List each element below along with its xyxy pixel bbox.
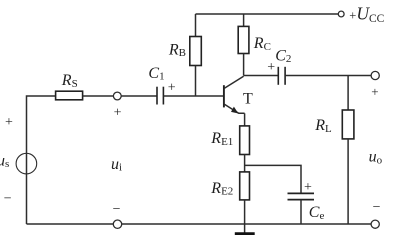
svg-text:uo: uo bbox=[369, 149, 383, 167]
wire: RS to input terminal bbox=[83, 95, 114, 97]
wire: RE1-RE2 junction to Ce branch bbox=[245, 165, 301, 193]
wire: emitter down to RE1 bbox=[244, 113, 246, 126]
wire: RE1 to RE2 bbox=[244, 155, 246, 172]
wire: RE2 to bottom rail bbox=[244, 200, 246, 224]
svg-text:ui: ui bbox=[111, 156, 122, 174]
node: output terminal top (open circle) bbox=[371, 71, 379, 79]
capacitor Ce bbox=[288, 193, 315, 199]
svg-text:RS: RS bbox=[61, 72, 78, 90]
wire: C1 to base (through RB junction) bbox=[163, 95, 223, 97]
svg-text:T: T bbox=[243, 90, 253, 107]
svg-text:RL: RL bbox=[314, 117, 332, 135]
node: input terminal bottom (open circle) bbox=[113, 220, 121, 228]
svg-text:+: + bbox=[5, 115, 13, 130]
svg-text:C2: C2 bbox=[275, 47, 291, 65]
svg-text:−: − bbox=[373, 200, 381, 215]
wire: bottom rail left segment bbox=[27, 223, 114, 225]
svg-text:+: + bbox=[371, 84, 378, 99]
wire: top supply rail bbox=[196, 13, 339, 15]
resistor RE2 bbox=[240, 172, 250, 200]
svg-text:RE2: RE2 bbox=[210, 180, 233, 198]
svg-text:+: + bbox=[267, 60, 275, 75]
resistor RE1 bbox=[240, 126, 250, 155]
resistor RS bbox=[56, 91, 83, 100]
wire: C2 to output terminal (through RL junction) bbox=[285, 75, 371, 77]
wire: RB box to base wire junction bbox=[195, 66, 197, 97]
svg-text:C1: C1 bbox=[148, 65, 164, 83]
transistor T: emitter diagonal bbox=[224, 104, 244, 113]
node: input terminal top (open circle) bbox=[113, 92, 121, 100]
transistor T: emitter arrowhead bbox=[231, 107, 238, 114]
resistor RC bbox=[238, 26, 249, 53]
svg-text:Ce: Ce bbox=[309, 204, 325, 222]
wire: bottom rail right segment bbox=[122, 223, 371, 225]
svg-text:−: − bbox=[4, 192, 12, 207]
svg-text:us: us bbox=[0, 152, 9, 170]
wire: RC box to collector junction bbox=[243, 54, 245, 76]
voltage source us (circle symbol) bbox=[16, 153, 37, 174]
svg-text:RE1: RE1 bbox=[210, 130, 233, 148]
resistor RB bbox=[190, 37, 202, 66]
wire: input terminal to C1 bbox=[121, 95, 157, 97]
resistor RL bbox=[342, 110, 354, 139]
capacitor C1 bbox=[157, 87, 163, 105]
wire: RB branch vertical (top rail to box) bbox=[195, 14, 197, 37]
svg-text:RB: RB bbox=[168, 41, 186, 59]
wire: collector to C2 bbox=[244, 75, 279, 77]
svg-text:RC: RC bbox=[253, 35, 271, 53]
wire: RL branch vertical bbox=[347, 76, 349, 111]
svg-text:−: − bbox=[113, 202, 121, 217]
svg-text:+: + bbox=[168, 81, 176, 96]
wire: RL to bottom rail bbox=[347, 139, 349, 224]
ground bbox=[235, 224, 255, 234]
svg-text:+: + bbox=[114, 105, 122, 120]
transistor T: collector diagonal bbox=[224, 76, 243, 88]
node: output terminal bottom (open circle) bbox=[371, 220, 379, 228]
wire: left branch from bottom rail up to RS, passing through source bbox=[27, 96, 56, 224]
svg-text:+: + bbox=[304, 180, 312, 195]
transistor T (NPN): base bar bbox=[223, 85, 225, 107]
wire: RC branch vertical from rail bbox=[243, 14, 245, 26]
capacitor C2 bbox=[278, 67, 285, 85]
wire: Ce to bottom rail bbox=[300, 200, 302, 224]
node: +UCC supply terminal (open circle) bbox=[338, 11, 344, 17]
svg-text:+UCC: +UCC bbox=[349, 3, 384, 25]
